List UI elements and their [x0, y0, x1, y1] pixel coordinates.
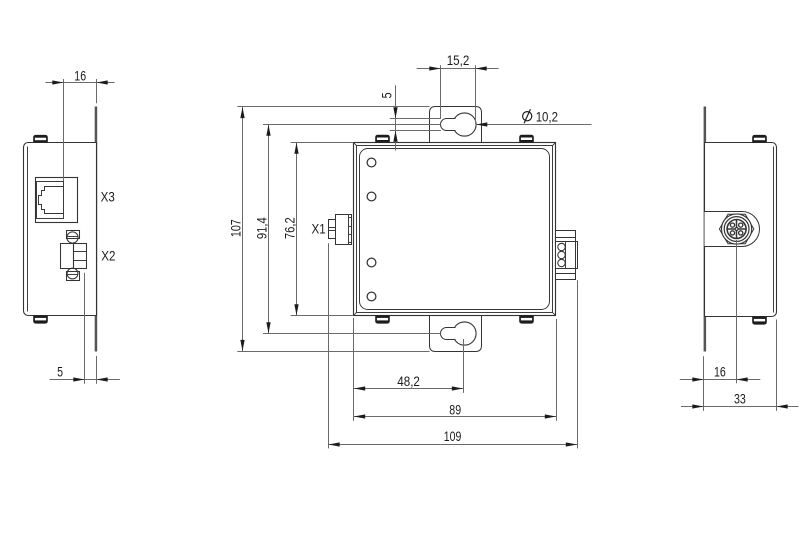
enclosure outer rect (front view) — [354, 143, 556, 316]
M12 pins — [730, 223, 734, 227]
svg-text:X1: X1 — [312, 221, 326, 237]
top keyhole slot — [441, 119, 456, 131]
dimension 89 — [354, 416, 556, 418]
top mounting tab — [430, 107, 482, 143]
dimension 109 — [329, 444, 578, 446]
dimension 107 — [242, 107, 244, 351]
svg-text:109: 109 — [444, 429, 462, 445]
dimension 91,4 — [268, 125, 270, 334]
M12 hex nut — [719, 214, 753, 243]
svg-text:5: 5 — [379, 92, 395, 98]
LED hole 1 — [367, 158, 376, 167]
front view group — [229, 53, 592, 448]
right side view group — [680, 107, 799, 411]
enclosure front face rounded rect — [360, 149, 550, 310]
top mounting screw (right view) — [752, 135, 767, 143]
LED hole 4 — [367, 292, 376, 301]
dimension 48,2 — [354, 388, 463, 390]
RJ45 jack X3 body — [36, 178, 78, 223]
connector X2 bottom screw — [67, 268, 78, 279]
svg-text:91,4: 91,4 — [255, 217, 271, 239]
connector X2 body — [61, 244, 74, 269]
right terminal connector — [556, 231, 576, 238]
dimension diameter 10,2 leader — [476, 124, 591, 126]
flange plate (left view) — [95, 107, 98, 352]
svg-text:33: 33 — [734, 392, 746, 408]
dimension 5 (slot width) — [395, 85, 397, 150]
enclosure body (left view) — [24, 143, 97, 316]
bottom mounting screw (left view) — [33, 316, 48, 324]
M12 insulator circle — [724, 217, 749, 242]
M12 cross lines — [736, 220, 738, 238]
M12 connector boss — [705, 212, 760, 247]
dimension 33 — [681, 406, 799, 408]
svg-text:15,2: 15,2 — [447, 53, 470, 69]
M12 inner circle — [727, 220, 746, 239]
dimension 76,2 — [296, 143, 298, 316]
connector X2 top screw — [67, 231, 80, 239]
RJ45 jack X3 opening — [37, 182, 64, 219]
screw top-right (front view) — [519, 135, 534, 143]
screw top-left (front view) — [375, 135, 390, 143]
dimension 16 (left view) — [46, 82, 115, 84]
body inner right edge line — [773, 147, 775, 313]
svg-text:X2: X2 — [101, 248, 115, 264]
bottom mounting tab — [430, 316, 482, 352]
dimension 15,2 — [417, 68, 499, 70]
screw bottom-left (front view) — [375, 316, 390, 324]
svg-text:48,2: 48,2 — [397, 374, 420, 390]
svg-text:16: 16 — [714, 365, 726, 381]
dimension 16 (right view) — [680, 379, 761, 381]
connector X1 tip — [329, 220, 336, 239]
flange plate (right view) — [704, 107, 707, 352]
top keyhole circle — [453, 113, 476, 136]
LED hole 2 — [367, 192, 376, 201]
left side view group — [24, 68, 120, 383]
svg-text:76,2: 76,2 — [283, 217, 299, 239]
M12 outer circle — [722, 214, 752, 244]
body inner left edge line — [27, 147, 29, 312]
svg-text:89: 89 — [449, 403, 461, 419]
svg-text:16: 16 — [74, 68, 86, 84]
RJ45 jack X3 plug profile — [39, 187, 64, 214]
svg-text:X3: X3 — [101, 190, 115, 206]
top mounting screw (left view) — [33, 135, 48, 143]
svg-text:5: 5 — [57, 364, 63, 380]
enclosure body (right view) — [705, 143, 777, 317]
connector X1 body — [336, 215, 352, 245]
corner chamfer lines — [354, 143, 357, 146]
svg-text:107: 107 — [229, 219, 245, 237]
screw bottom-right (front view) — [519, 316, 534, 324]
bottom keyhole slot — [441, 328, 456, 340]
bottom keyhole circle — [453, 322, 476, 345]
bottom mounting screw (right view) — [752, 317, 767, 325]
dimension 5 (left view) — [50, 379, 120, 381]
enclosure second rect — [357, 146, 553, 313]
terminal screws — [558, 243, 565, 250]
LED hole 3 — [367, 258, 376, 267]
svg-text:10,2: 10,2 — [536, 109, 558, 125]
